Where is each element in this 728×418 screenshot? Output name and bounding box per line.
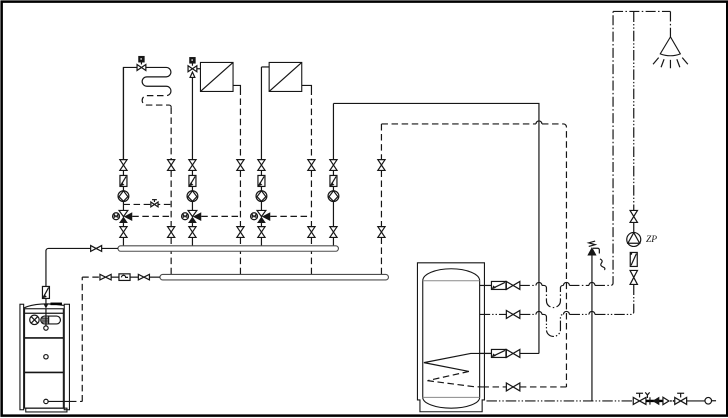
svg-text:ZP: ZP [646,235,657,245]
